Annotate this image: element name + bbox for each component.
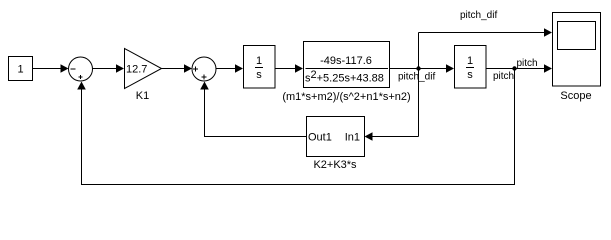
wire from junction down into In1 of K2+K3*s (365, 132, 419, 141)
wire sum2 to integrator1 (216, 64, 243, 73)
sum junction Sum1 (69, 57, 93, 81)
svg-text:K1: K1 (136, 90, 149, 102)
svg-text:pitch: pitch (493, 71, 514, 82)
wire constant to sum1 (33, 64, 69, 73)
wire Out1 back to sum2 (200, 82, 306, 137)
svg-text:1: 1 (17, 64, 23, 76)
svg-text:pitch_dif: pitch_dif (398, 72, 435, 83)
wire integrator2 to scope input 2, labels pitch (486, 58, 552, 82)
svg-text:Scope: Scope (560, 90, 591, 102)
svg-text:(m1*s+m2)/(s^2+n1*s+n2): (m1*s+m2)/(s^2+n1*s+n2) (282, 91, 410, 103)
wire branch up to scope input 1, label pitch_dif (419, 10, 553, 137)
wire transfer fcn to integrator2, label pitch_dif (390, 64, 455, 82)
svg-text:pitch_dif: pitch_dif (460, 10, 497, 21)
svg-text:pitch: pitch (517, 58, 538, 69)
junction node at pitch branch (512, 66, 516, 70)
svg-text:K2+K3*s: K2+K3*s (313, 159, 357, 171)
scope block (553, 13, 601, 103)
transfer function block (m1*s+m2)/(s^2+n1*s+n2) (282, 42, 410, 104)
outer feedback wire pitch to sum1 (77, 69, 514, 185)
wire gain to sum2 (162, 64, 193, 73)
svg-text:1: 1 (256, 55, 262, 67)
integrator 1/s (second) (455, 46, 487, 89)
constant block "1" (9, 57, 33, 81)
junction node at pitch_dif branch (416, 66, 420, 70)
svg-text:In1: In1 (345, 132, 360, 144)
gain K1 (12.7) (125, 49, 162, 103)
svg-text:s: s (467, 69, 473, 81)
subsystem block K2+K3*s (307, 117, 365, 172)
sum junction Sum2 (192, 57, 216, 81)
svg-text:1: 1 (467, 55, 473, 67)
wire integrator1 to transfer fcn (275, 64, 304, 73)
svg-text:12.7: 12.7 (126, 64, 147, 76)
svg-text:-49s-117.6: -49s-117.6 (320, 55, 372, 67)
svg-text:s: s (256, 69, 262, 81)
svg-text:Out1: Out1 (308, 132, 332, 144)
wire sum1 to gain K1 (93, 64, 125, 73)
integrator 1/s (first) (244, 46, 276, 89)
